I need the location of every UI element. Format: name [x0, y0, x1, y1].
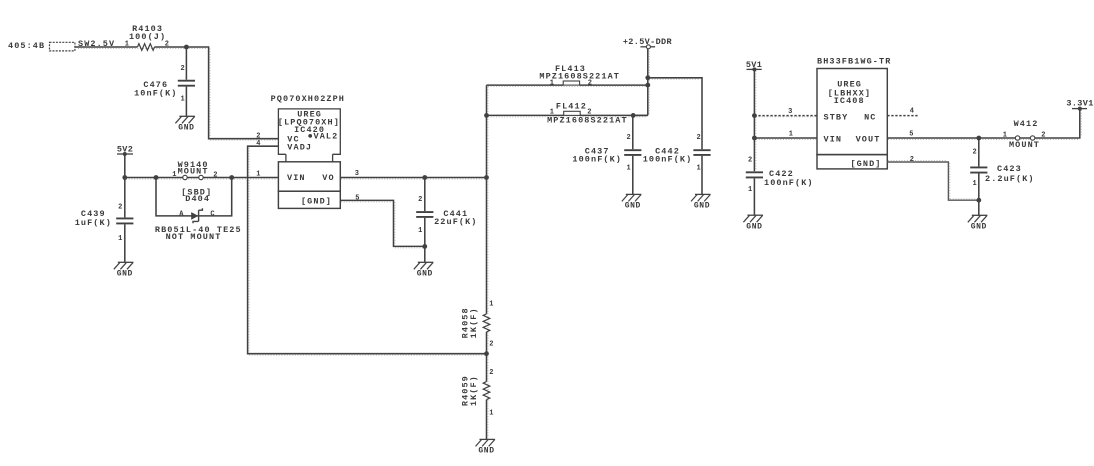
svg-text:2: 2	[489, 341, 494, 349]
junction +2.5V-DDR / FL413	[645, 83, 650, 88]
svg-text:100nF(K): 100nF(K)	[643, 154, 693, 164]
ferrite bead FL413	[487, 64, 648, 88]
ground GND below C441	[414, 262, 434, 278]
wire D404 branch loop	[156, 178, 232, 216]
junction FL412 left	[484, 113, 489, 118]
pin 4 label VADJ	[256, 140, 261, 148]
ground GND below C476	[175, 116, 195, 132]
IC408 footprint label BH33FB1WG-TR	[817, 56, 891, 66]
svg-text:1: 1	[626, 165, 631, 173]
resistor R4059	[460, 369, 493, 418]
jumper W9140	[172, 160, 218, 180]
power flag 5V1	[746, 60, 762, 171]
power flag 3.3V1	[1066, 99, 1093, 111]
svg-text:GND: GND	[178, 124, 194, 133]
svg-text:VIN: VIN	[287, 173, 306, 183]
IC420 footprint label PQ070XH02ZPH	[271, 94, 345, 104]
svg-text:2: 2	[180, 65, 185, 73]
IC408 GND section	[817, 155, 887, 169]
svg-text:MOUNT: MOUNT	[178, 167, 209, 177]
capacitor C476	[134, 47, 195, 116]
svg-text:1: 1	[418, 227, 423, 235]
op-amp U420 upper body (UREG LPQ070XH IC420)	[278, 109, 340, 162]
svg-text:VIN: VIN	[824, 135, 843, 145]
junction 5V2/C439	[122, 175, 127, 180]
junction R4058/R4059/VADJ	[484, 351, 489, 356]
svg-text:1: 1	[125, 40, 130, 48]
pin 3 label STBY	[788, 108, 793, 116]
diode D404 (schottky)	[155, 188, 242, 243]
wire FL412 up-corner	[633, 114, 648, 116]
capacitor C441	[416, 178, 477, 263]
IC420 GND section	[278, 191, 340, 208]
capacitor C423	[970, 138, 1034, 215]
wire 5V1 to VIN pin 1	[754, 137, 817, 139]
svg-text:2: 2	[213, 172, 218, 180]
pin 5 label GND tab	[355, 195, 360, 203]
svg-text:1: 1	[172, 171, 177, 179]
svg-text:VAL2: VAL2	[314, 131, 339, 141]
svg-text:1: 1	[180, 95, 185, 103]
svg-text:VO: VO	[322, 173, 334, 183]
capacitor C422	[746, 156, 814, 215]
pin 5 label VOUT	[909, 131, 914, 139]
wire VOUT row to 3.3V1	[887, 109, 1080, 138]
junction VO at adj vertical	[484, 175, 489, 180]
off-page connector 405:4B	[8, 41, 75, 51]
pin 4 label NC	[910, 107, 915, 115]
svg-text:GND: GND	[478, 447, 494, 456]
svg-text:5: 5	[355, 195, 360, 203]
svg-text:1: 1	[789, 131, 794, 139]
svg-text:MOUNT: MOUNT	[1009, 140, 1040, 150]
svg-text:1: 1	[696, 165, 701, 173]
svg-text:FL412: FL412	[556, 101, 587, 111]
svg-text:D404: D404	[185, 194, 210, 204]
svg-text:1K(F): 1K(F)	[469, 375, 479, 406]
ground GND below C422	[743, 215, 763, 231]
wire 5V2 row to VIN pin 1 of IC420	[125, 177, 279, 179]
svg-text:NOT MOUNT: NOT MOUNT	[166, 232, 222, 242]
junction 5V1/VIN	[752, 136, 757, 141]
ground GND below C439	[114, 262, 134, 278]
svg-text:1: 1	[256, 171, 261, 179]
IC420 lower body VIN/VO	[278, 162, 340, 191]
wire VADJ pin 4 to R4058/R4059 node	[248, 146, 487, 354]
svg-text:MPZ1608S221AT: MPZ1608S221AT	[547, 116, 628, 126]
svg-text:2: 2	[626, 134, 631, 142]
wire SW2.5V to R4103 pin 1	[75, 46, 138, 48]
resistor R4103	[125, 24, 170, 50]
svg-text:10nF(K): 10nF(K)	[134, 89, 177, 99]
wire +2.5V-DDR branch to C442	[648, 78, 702, 149]
svg-text:2: 2	[910, 156, 915, 164]
svg-text:1K(F): 1K(F)	[469, 307, 479, 338]
svg-text:C423: C423	[997, 164, 1022, 174]
svg-text:2: 2	[256, 132, 261, 140]
svg-text:2: 2	[696, 134, 701, 142]
pin 2 label IC408 GND	[910, 156, 915, 164]
svg-text:2: 2	[118, 204, 123, 212]
junction left of D404 loop	[154, 175, 159, 180]
junction FL412 / C437	[631, 113, 636, 118]
svg-text:1: 1	[118, 235, 123, 243]
svg-text:A: A	[179, 211, 184, 219]
junction C441 top	[422, 175, 427, 180]
svg-text:GND: GND	[625, 202, 641, 211]
svg-text:STBY: STBY	[824, 113, 849, 123]
svg-text:2: 2	[972, 149, 977, 157]
svg-text:1: 1	[550, 79, 555, 87]
junction 5V1/STBY	[752, 113, 757, 118]
svg-text:2: 2	[1041, 132, 1046, 140]
pin 2 label VC	[256, 132, 261, 140]
svg-text:GND: GND	[417, 270, 433, 279]
svg-text:1uF(K): 1uF(K)	[75, 218, 112, 228]
svg-text:1: 1	[1003, 132, 1008, 140]
capacitor C437	[572, 115, 641, 194]
pin 1 label of IC420 VIN	[256, 171, 261, 179]
svg-text:2: 2	[588, 79, 593, 87]
jumper W412	[1003, 119, 1046, 150]
svg-text:GND: GND	[971, 223, 987, 232]
svg-text:VADJ: VADJ	[287, 143, 312, 153]
svg-text:[GND]: [GND]	[301, 197, 332, 207]
junction C423 / GND pin 2	[976, 198, 981, 203]
wire NC stub pin 4	[887, 115, 917, 117]
resistor R4058	[460, 300, 493, 348]
pin 1 label VIN	[789, 131, 794, 139]
svg-text:PQ070XH02ZPH: PQ070XH02ZPH	[271, 94, 345, 104]
wire 5V1 to STBY pin 3	[754, 115, 817, 117]
svg-text:W412: W412	[1014, 119, 1039, 129]
svg-text:2.2uF(K): 2.2uF(K)	[985, 174, 1035, 184]
svg-text:GND: GND	[694, 202, 710, 211]
junction C441 / GND pin 5	[422, 244, 427, 249]
svg-text:BH33FB1WG-TR: BH33FB1WG-TR	[817, 56, 891, 66]
svg-text:VOUT: VOUT	[856, 135, 881, 145]
pin 3 label VO	[355, 170, 360, 178]
ground GND below R4059	[476, 439, 496, 455]
svg-text:C: C	[210, 211, 215, 219]
op-amp U408 body (UREG LBHXX IC408)	[817, 69, 887, 155]
svg-text:4: 4	[256, 140, 261, 148]
svg-text:2: 2	[418, 196, 423, 204]
svg-text:22uF(K): 22uF(K)	[434, 217, 477, 227]
power flag +2.5V-DDR	[623, 37, 673, 115]
ground GND below C423	[968, 215, 988, 231]
svg-text:405:4B: 405:4B	[8, 41, 45, 51]
junction VOUT/C423	[976, 136, 981, 141]
capacitor C439	[75, 178, 134, 263]
wire adj vertical node	[486, 85, 488, 439]
ferrite bead FL412	[487, 101, 648, 125]
junction at SW2.5V node / C476	[184, 45, 189, 50]
svg-text:1: 1	[972, 180, 977, 188]
wire VO row	[340, 177, 486, 179]
svg-text:4: 4	[910, 107, 915, 115]
junction right of D404 loop	[229, 175, 234, 180]
svg-text:3: 3	[788, 108, 793, 116]
power flag 5V2	[117, 145, 133, 178]
capacitor C442	[643, 134, 711, 194]
svg-text:100nF(K): 100nF(K)	[572, 154, 622, 164]
wire IC420 GND pin 5 to C441 bottom	[340, 200, 425, 246]
svg-text:1: 1	[489, 410, 494, 418]
wire R4103 pin 2 to VC pin of IC420	[155, 47, 279, 139]
net label SW2.5V	[78, 39, 115, 49]
svg-text:2: 2	[748, 156, 753, 164]
svg-text:1: 1	[748, 186, 753, 194]
ground GND below C437	[622, 194, 642, 210]
svg-text:100(J): 100(J)	[129, 32, 166, 42]
ground GND below C442	[691, 194, 711, 210]
junction +2.5V-DDR / C442 branch	[645, 75, 650, 80]
wire IC408 GND pin 2 to C423 bottom	[887, 162, 979, 200]
svg-text:2: 2	[489, 369, 494, 377]
svg-text:100nF(K): 100nF(K)	[764, 178, 814, 188]
svg-text:[GND]: [GND]	[850, 159, 881, 169]
svg-text:IC408: IC408	[834, 96, 865, 106]
svg-text:GND: GND	[746, 222, 762, 231]
svg-text:NC: NC	[864, 113, 876, 123]
svg-text:GND: GND	[117, 270, 133, 279]
svg-text:1: 1	[489, 300, 494, 308]
